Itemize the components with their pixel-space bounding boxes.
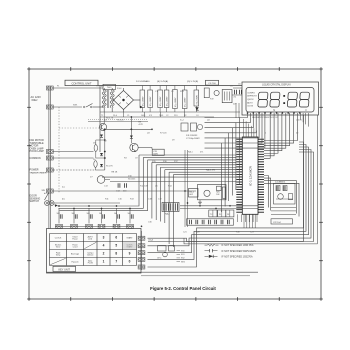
svg-text:R12 10K: R12 10K (140, 186, 148, 188)
svg-text:DEFROST: DEFROST (247, 96, 257, 98)
svg-text:103: 103 (114, 213, 117, 215)
svg-text:103: 103 (57, 213, 60, 215)
svg-text:HOOD LAMP: HOOD LAMP (30, 150, 45, 153)
svg-text:IC3: IC3 (149, 115, 152, 117)
svg-text:103: 103 (72, 213, 75, 215)
svg-text:60Hz: 60Hz (32, 98, 39, 102)
svg-text:COOK: COOK (247, 106, 254, 108)
svg-text:TRANSFORMER: TRANSFORMER (30, 171, 47, 174)
svg-text:(D): (D) (62, 199, 65, 201)
svg-text:47μ 16WV: 47μ 16WV (150, 96, 152, 106)
svg-text:KS0: KS0 (181, 251, 185, 253)
svg-text:6: 6 (115, 236, 117, 240)
svg-text:D-2 AN6651: D-2 AN6651 (275, 180, 285, 183)
svg-text:4: 4 (103, 244, 105, 248)
svg-text:D11 1SS133: D11 1SS133 (186, 135, 198, 137)
svg-text:R8 1K: R8 1K (112, 172, 118, 174)
svg-text:KS2: KS2 (181, 258, 185, 260)
svg-text:LCD-1: LCD-1 (296, 120, 303, 122)
svg-text:(D) 5.1V(B): (D) 5.1V(B) (187, 81, 198, 83)
svg-text:C7 100μ 16WV: C7 100μ 16WV (186, 138, 200, 140)
svg-text:COMPU: COMPU (247, 92, 255, 94)
svg-text:47μ 16WV: 47μ 16WV (175, 97, 177, 107)
svg-text:Level: Level (73, 247, 78, 249)
svg-text:C1: C1 (127, 115, 129, 117)
svg-text:8: 8 (115, 252, 117, 256)
svg-text:CLOCK: CLOCK (55, 237, 62, 239)
svg-text:47μ 16WV: 47μ 16WV (185, 97, 187, 107)
svg-text:47μ 16WV: 47μ 16WV (167, 96, 169, 106)
svg-text:ZD1: ZD1 (174, 115, 178, 117)
svg-text:3: 3 (103, 236, 105, 240)
svg-text:IF NOT SPECIFIED 50WV/16WV: IF NOT SPECIFIED 50WV/16WV (222, 251, 257, 253)
svg-text:IF NOT SPECIFIED 1/6W ±5%: IF NOT SPECIFIED 1/6W ±5% (222, 245, 254, 247)
svg-text:CX-760: CX-760 (208, 83, 216, 85)
svg-text:D1-4: D1-4 (113, 115, 117, 117)
svg-text:Figure 5-2. Control Panel Circ: Figure 5-2. Control Panel Circuit (150, 286, 216, 291)
svg-text:AUTO: AUTO (247, 101, 253, 104)
svg-text:QUICK: QUICK (247, 99, 254, 101)
svg-text:5: 5 (115, 244, 117, 248)
svg-text:47μ 16WV: 47μ 16WV (160, 96, 162, 106)
svg-text:T1: T1 (101, 115, 103, 117)
svg-text:(E) 9.4V(A): (E) 9.4V(A) (157, 80, 168, 83)
svg-text:CN-A: CN-A (148, 239, 154, 242)
svg-text:SD1555: SD1555 (128, 178, 136, 180)
svg-text:1: 1 (103, 260, 105, 264)
svg-text:oz: oz (305, 110, 307, 112)
svg-text:C22 104: C22 104 (273, 222, 281, 224)
svg-text:SW: SW (42, 190, 45, 192)
svg-text:9: 9 (129, 252, 131, 256)
svg-text:Temp: Temp (56, 255, 61, 257)
svg-text:Defrost: Defrost (87, 254, 94, 257)
svg-text:Pause: Pause (72, 239, 77, 241)
svg-text:LIQUID CRYSTAL DISPLAY: LIQUID CRYSTAL DISPLAY (262, 83, 291, 86)
svg-text:C4: C4 (196, 115, 198, 117)
svg-text:PL: PL (219, 214, 221, 216)
svg-text:COMMON: COMMON (30, 157, 41, 160)
svg-text:47μ 16WV: 47μ 16WV (196, 94, 198, 104)
svg-text:2: 2 (103, 252, 105, 256)
svg-text:(LO): (LO) (88, 239, 92, 241)
svg-text:7805: 7805 (159, 115, 163, 117)
svg-text:D2: D2 (227, 214, 229, 216)
svg-text:IC-1 1ZA36CR: IC-1 1ZA36CR (249, 165, 253, 186)
svg-text:START: START (126, 236, 133, 239)
svg-text:400V: 400V (153, 154, 158, 156)
svg-text:KS1: KS1 (181, 254, 185, 256)
svg-text:7: 7 (115, 260, 117, 264)
svg-text:(C): (C) (62, 187, 65, 189)
svg-text:103: 103 (87, 213, 90, 215)
svg-text:POWER: POWER (30, 169, 39, 172)
svg-text:RA-1 471: RA-1 471 (206, 169, 216, 172)
svg-text:Popcorn: Popcorn (71, 260, 78, 263)
svg-text:CONTROL UNIT: CONTROL UNIT (71, 82, 91, 86)
svg-text:1000: 1000 (141, 115, 145, 117)
svg-text:PLUS: PLUS (88, 263, 94, 265)
svg-text:103: 103 (128, 213, 131, 215)
svg-text:SEG: SEG (181, 261, 186, 263)
svg-text:R2: R2 (184, 115, 186, 117)
svg-text:R1 120: R1 120 (117, 120, 124, 122)
svg-text:IF NOT SPECIFIED 1SS270A: IF NOT SPECIFIED 1SS270A (222, 255, 253, 258)
svg-text:47μ 16WV: 47μ 16WV (142, 96, 144, 106)
svg-text:R7 220: R7 220 (160, 133, 167, 135)
svg-text:R6 4.7K: R6 4.7K (106, 118, 114, 120)
svg-text:Timer: Timer (56, 246, 61, 249)
svg-text:R5 27K: R5 27K (106, 166, 113, 168)
svg-text:103: 103 (216, 194, 219, 196)
svg-text:C2: C2 (166, 115, 168, 117)
svg-text:0: 0 (129, 260, 131, 264)
svg-text:Beverage: Beverage (71, 252, 79, 255)
svg-text:SWITCH: SWITCH (30, 200, 40, 203)
svg-text:4.7K: 4.7K (139, 124, 144, 126)
svg-text:103: 103 (99, 213, 102, 215)
svg-text:KEY UNIT: KEY UNIT (58, 268, 70, 271)
svg-text:D1 S1WBA60: D1 S1WBA60 (136, 80, 150, 83)
